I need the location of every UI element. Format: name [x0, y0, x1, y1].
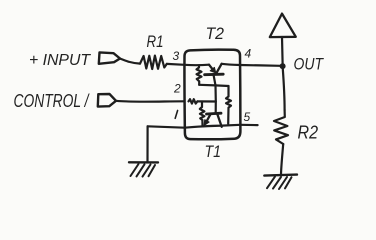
wire R1 to pin 3 — [167, 63, 185, 66]
input terminal tag — [99, 52, 120, 63]
wire control tag to pin 2 — [116, 100, 184, 103]
svg-text:2: 2 — [173, 82, 181, 96]
ground (right, below R2) — [264, 175, 297, 189]
wire OUT node to R2 — [283, 69, 285, 110]
resistor R2 — [274, 110, 288, 144]
wire R2 to ground — [281, 144, 283, 175]
svg-text:CONTROL /: CONTROL / — [14, 91, 91, 111]
internal resistor right (base net to bottom) — [226, 86, 231, 124]
wire pin3 internal to Q2 emitter — [185, 64, 210, 67]
transistor Q1 (lower) — [204, 113, 222, 127]
svg-text:3: 3 — [173, 49, 180, 63]
control terminal tag — [98, 94, 116, 107]
wire pin1 to ground stem — [148, 126, 185, 127]
svg-text:T2: T2 — [206, 24, 225, 43]
pin 1 label — [175, 111, 177, 119]
transistor array package box — [184, 50, 240, 140]
svg-text:5: 5 — [244, 110, 251, 124]
wire pin5 stub — [240, 124, 257, 126]
resistor R1 — [140, 56, 167, 69]
svg-text:T1: T1 — [205, 143, 222, 161]
internal resistor on pin2 wire (horizontal) — [189, 99, 198, 103]
svg-text:R2: R2 — [298, 123, 319, 143]
transistor Q2 (upper) — [205, 64, 224, 86]
base net wire (horizontal y85) — [199, 85, 228, 86]
svg-text:R1: R1 — [147, 33, 164, 51]
wire triangle to OUT node — [281, 37, 284, 63]
wire input tag to R1 — [120, 59, 140, 64]
svg-text:OUT: OUT — [294, 55, 325, 74]
svg-text:+ INPUT: + INPUT — [29, 52, 91, 69]
wire Q2 collector to OUT node — [222, 64, 280, 66]
node OUT junction dot — [280, 63, 286, 69]
ground (left) — [129, 162, 158, 176]
internal resistor top-left (pin3 to base net) — [197, 65, 202, 85]
wire base net down to pin2 junction and Q1 base — [214, 85, 217, 113]
wire pin2 internal to Q1 base lead — [197, 100, 215, 102]
supply arrow triangle — [270, 14, 296, 37]
ground stem (left) — [146, 126, 148, 162]
internal bottom wire (emitter rail) — [185, 125, 241, 128]
svg-text:4: 4 — [245, 47, 252, 61]
internal resistor lower-left (pin2 net to emitter line) — [200, 102, 205, 126]
